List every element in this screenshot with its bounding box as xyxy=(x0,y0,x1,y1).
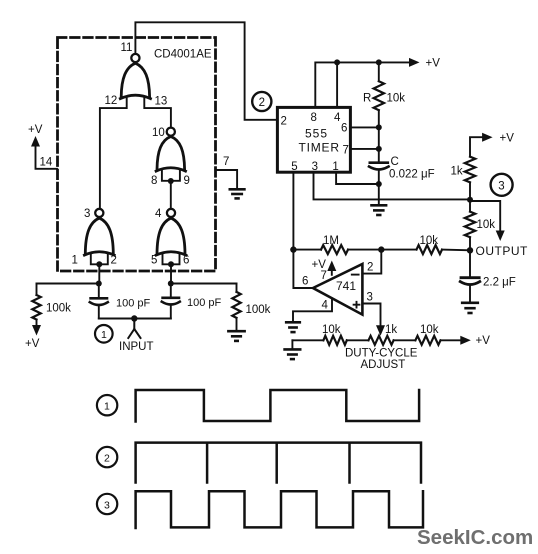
svg-text:4: 4 xyxy=(155,208,162,220)
svg-text:OUTPUT: OUTPUT xyxy=(476,244,529,258)
resistor 10k duty right xyxy=(415,336,440,345)
svg-text:100k: 100k xyxy=(246,304,271,316)
svg-text:+V: +V xyxy=(28,124,43,136)
capacitor C2 100 pF right xyxy=(170,284,172,298)
node circle 3 annotation xyxy=(491,174,513,196)
arrow to +V right of chain xyxy=(441,339,462,341)
svg-text:6: 6 xyxy=(183,255,189,267)
node junction right xyxy=(168,281,174,287)
svg-text:10k: 10k xyxy=(420,324,439,336)
svg-text:100 pF: 100 pF xyxy=(116,298,151,310)
svg-text:3: 3 xyxy=(84,208,90,220)
resistor 100k right xyxy=(232,292,240,318)
svg-text:11: 11 xyxy=(121,42,133,54)
wire 555 pin 4 to rail xyxy=(336,62,338,107)
resistor R 100k left xyxy=(32,295,40,320)
svg-text:10k: 10k xyxy=(477,219,496,231)
svg-text:6: 6 xyxy=(302,276,308,288)
svg-text:4: 4 xyxy=(322,300,329,312)
waveform trace 2 circle xyxy=(97,447,117,467)
svg-text:2: 2 xyxy=(281,116,287,128)
ground symbol below 2.2uF xyxy=(462,303,478,313)
wire G4 inputs down through box xyxy=(170,264,172,283)
svg-text:1: 1 xyxy=(332,161,338,173)
svg-text:8: 8 xyxy=(311,112,317,124)
junction pin 7 xyxy=(376,146,382,152)
wire down to left 100k xyxy=(36,284,38,296)
svg-text:2: 2 xyxy=(367,262,373,274)
svg-text:8: 8 xyxy=(151,175,157,187)
svg-text:10k: 10k xyxy=(420,235,439,247)
svg-text:5: 5 xyxy=(291,161,297,173)
ground symbol op-amp pin 4 xyxy=(286,322,300,332)
minus input mark xyxy=(352,274,359,276)
+V arrow top of right column xyxy=(470,137,483,157)
svg-text:ADJUST: ADJUST xyxy=(361,359,406,371)
+V rail above 555 xyxy=(315,62,410,107)
node circle 1 annotation xyxy=(95,325,113,343)
svg-text:100k: 100k xyxy=(46,303,71,315)
gate G2 output bubble pin 10 xyxy=(167,128,175,136)
junction C bottom xyxy=(376,181,382,187)
nor gate G1 (pins 11,12,13) xyxy=(120,63,150,98)
svg-text:7: 7 xyxy=(343,145,349,157)
node circle 2 annotation xyxy=(252,92,271,111)
wire 100k right to ground xyxy=(236,318,238,331)
capacitor C 0.022uF xyxy=(370,161,388,164)
wire 555 pin 3 output to node 3 column xyxy=(314,172,471,199)
junction 1M right / op-amp pin 2 xyxy=(378,246,384,252)
resistor 1k xyxy=(465,157,475,183)
wire 555 pin 1 to C bottom xyxy=(336,172,379,184)
plus input mark xyxy=(354,302,360,308)
svg-text:4: 4 xyxy=(334,112,341,124)
waveform trace 3 circle xyxy=(97,494,117,514)
+V supply arrow pin 14 xyxy=(36,146,58,169)
svg-text:6: 6 xyxy=(341,123,347,135)
wire op-amp pin 3 to pot wiper xyxy=(362,304,380,326)
svg-text:100 pF: 100 pF xyxy=(187,297,222,309)
junction pin 6 xyxy=(376,124,382,130)
gate G4 input stubs pins 5,6 joined xyxy=(163,255,180,265)
svg-text:10: 10 xyxy=(152,127,165,139)
nor gate G3 (pins 1,2,3) xyxy=(84,218,114,255)
resistor 10k duty left xyxy=(323,336,346,345)
svg-text:10k: 10k xyxy=(322,324,341,336)
wire 555 pin 6 xyxy=(350,126,378,128)
svg-text:10k: 10k xyxy=(387,93,406,105)
nor gate G4 (pins 4,5,6) xyxy=(156,218,186,255)
waveform trace 1 square wave xyxy=(136,390,420,422)
svg-text:INPUT: INPUT xyxy=(119,341,154,353)
svg-text:3: 3 xyxy=(367,292,373,304)
resistor 1M xyxy=(321,245,348,254)
svg-text:DUTY-CYCLE: DUTY-CYCLE xyxy=(345,348,418,360)
ground at left end of chain xyxy=(291,340,293,348)
junction G2 inputs xyxy=(168,178,174,184)
svg-text:13: 13 xyxy=(155,96,168,108)
ground symbol below 555 xyxy=(372,205,387,215)
svg-text:3: 3 xyxy=(104,500,110,512)
svg-text:R: R xyxy=(363,93,371,105)
svg-text:3: 3 xyxy=(312,161,318,173)
wire 555 pin 5 down to op-amp rail xyxy=(292,172,294,249)
svg-text:1k: 1k xyxy=(385,324,397,336)
duty cycle adjust chain xyxy=(292,339,323,341)
svg-text:14: 14 xyxy=(40,157,53,169)
wiper arrow onto 1k pot xyxy=(376,325,385,336)
svg-text:C: C xyxy=(391,156,399,168)
gate G1 output bubble pin 11 xyxy=(131,54,139,62)
pin 4 wire to ground xyxy=(293,298,332,321)
wire G2 inputs to gate G4 output xyxy=(170,181,172,208)
left horizontal rail to 100k xyxy=(37,283,99,285)
svg-text:1: 1 xyxy=(101,329,107,341)
svg-text:+V: +V xyxy=(476,335,491,347)
right horizontal rail to 100k xyxy=(171,283,237,285)
junction pin4 rail xyxy=(334,59,340,65)
svg-text:5: 5 xyxy=(151,255,157,267)
svg-text:+V: +V xyxy=(25,338,40,350)
op-amp U2 741 triangle xyxy=(313,264,362,315)
svg-text:1M: 1M xyxy=(323,235,339,247)
junction G4 inputs xyxy=(168,261,174,267)
arrow to +V below left 100k xyxy=(36,320,38,327)
svg-text:CD4001AE: CD4001AE xyxy=(154,49,212,61)
branch arrow from node 3 down toward OUTPUT xyxy=(470,201,500,232)
svg-text:1: 1 xyxy=(72,255,78,267)
resistor 10k horizontal xyxy=(417,245,443,254)
wire op-amp pin 2 to 1M junction xyxy=(362,250,381,274)
gate G2 input stubs pins 8,9 joined xyxy=(162,171,180,181)
svg-text:2: 2 xyxy=(259,97,265,109)
svg-text:0.022 μF: 0.022 μF xyxy=(389,169,435,181)
nor gate G2 (pins 8,9,10) xyxy=(156,136,185,171)
wire pin 11 to 555 pin 2 xyxy=(135,22,277,120)
wire G3 inputs down through box xyxy=(98,264,100,283)
capacitor 2.2uF xyxy=(469,250,471,277)
svg-text:555: 555 xyxy=(305,127,328,141)
junction OUTPUT node xyxy=(467,247,473,253)
ground symbol pin 7 xyxy=(230,189,245,198)
svg-text:SeekIC.com: SeekIC.com xyxy=(417,526,533,549)
svg-text:7: 7 xyxy=(321,270,327,282)
svg-text:1k: 1k xyxy=(451,166,463,178)
wire to ground below C xyxy=(378,184,380,205)
svg-text:+V: +V xyxy=(426,58,441,70)
resistor 10k vertical xyxy=(465,212,475,238)
wire op-amp output pin 6 xyxy=(293,250,313,288)
svg-text:2: 2 xyxy=(104,453,110,465)
svg-text:1: 1 xyxy=(104,401,110,413)
gate G3 input stubs pins 1,2 joined xyxy=(91,255,108,265)
svg-text:2.2 μF: 2.2 μF xyxy=(483,277,516,289)
junction 1M left / pin5 / op-amp out xyxy=(290,246,296,252)
waveform trace 1 circle xyxy=(97,395,117,415)
junction R rail xyxy=(376,59,382,65)
svg-text:3: 3 xyxy=(498,181,504,193)
waveform trace 3 square wave xyxy=(136,491,423,528)
wire G1 input 12 to gate G3 xyxy=(100,98,127,208)
node INPUT junction xyxy=(131,315,137,321)
mid horizontal rail with 1M and 10k xyxy=(293,249,321,251)
wire down to right 100k xyxy=(236,284,238,292)
INPUT feed arrow glyph xyxy=(128,319,140,339)
junction G3 inputs xyxy=(96,261,102,267)
gate G4 output bubble pin 4 xyxy=(167,209,175,217)
node junction left xyxy=(96,281,102,287)
svg-text:2: 2 xyxy=(111,255,117,267)
waveform trace 2 pulse comb xyxy=(136,443,421,483)
svg-text:9: 9 xyxy=(184,175,190,187)
capacitor C1 100 pF left xyxy=(98,284,100,298)
svg-text:+V: +V xyxy=(500,133,515,145)
svg-text:7: 7 xyxy=(223,156,229,168)
dashed box CD4001AE package xyxy=(58,38,216,272)
svg-text:12: 12 xyxy=(105,95,118,107)
wire 555 pin 7 xyxy=(350,127,378,162)
pin 7 +V arrow xyxy=(331,271,333,275)
wire G1 input 13 to gate G2 xyxy=(144,98,171,128)
pin 7 ground of CD4001 xyxy=(215,170,237,189)
gate G3 output bubble pin 3 xyxy=(95,209,103,217)
svg-text:741: 741 xyxy=(336,279,356,293)
ground symbol right 100k xyxy=(228,331,244,341)
wire joining caps at input node xyxy=(99,318,171,320)
potentiometer 1k xyxy=(369,336,394,345)
resistor R 10k xyxy=(378,62,380,81)
svg-text:TIMER: TIMER xyxy=(299,141,340,155)
IC 555 timer box xyxy=(277,107,350,172)
junction node 3 xyxy=(467,197,473,203)
